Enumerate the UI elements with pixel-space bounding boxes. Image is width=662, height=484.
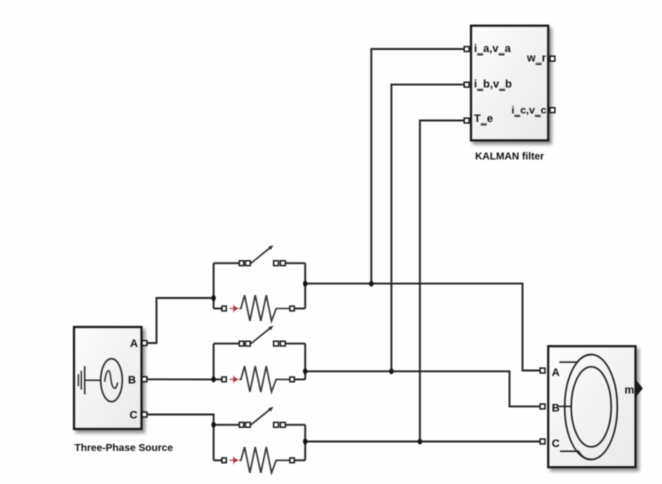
port square source C bbox=[142, 412, 147, 417]
svg-text:B: B bbox=[128, 375, 136, 387]
junction phase A tap bbox=[369, 281, 373, 287]
breaker 3 switch blade bbox=[251, 409, 270, 424]
breaker 1 right vertical wire bbox=[304, 263, 306, 308]
breaker 3 top-left wire bbox=[214, 424, 240, 426]
svg-text:C: C bbox=[552, 438, 560, 450]
breaker 2 top-right wire bbox=[285, 343, 305, 345]
breaker 2 resistor R2 zigzag bbox=[239, 366, 290, 392]
junction breaker 1 input bbox=[211, 295, 215, 301]
svg-text:m: m bbox=[625, 385, 635, 397]
breaker 1 resistor R1 zigzag bbox=[239, 295, 290, 321]
svg-text:C: C bbox=[130, 410, 138, 422]
svg-text:A: A bbox=[130, 338, 138, 350]
KALMAN filter U2 block body bbox=[471, 26, 548, 141]
wire ground to AC source symbol bbox=[85, 379, 101, 381]
svg-text:Three-Phase Source: Three-Phase Source bbox=[75, 443, 174, 454]
breaker 2 resistor port square left bbox=[222, 377, 226, 382]
breaker 2 resistor port square right bbox=[290, 377, 294, 382]
junction breaker 2 input bbox=[211, 376, 215, 382]
junction breaker 1 output bbox=[303, 281, 307, 287]
junction phase C tap bbox=[418, 439, 422, 445]
breaker 1 bottom-right wire bbox=[294, 308, 305, 310]
wire phase B breaker 2 to machine B bbox=[305, 371, 540, 406]
port square source B bbox=[142, 377, 147, 382]
machine A lead line bbox=[559, 355, 591, 363]
asynchronous machine M1 block body bbox=[548, 346, 635, 467]
machine C lead line bbox=[560, 451, 592, 459]
underscore marks for kalman pin labels bbox=[477, 55, 541, 125]
breaker 1 top-right wire bbox=[285, 262, 305, 264]
breaker 1 top-left wire bbox=[214, 262, 240, 264]
breaker 2 current arrow (red) bbox=[230, 375, 239, 383]
wire source B to breaker 2 bbox=[147, 378, 214, 380]
breaker 2 bottom-left wire bbox=[214, 378, 222, 380]
breaker 3 current arrow (red) bbox=[230, 456, 239, 464]
ground symbol (inside source) bbox=[78, 366, 84, 394]
breaker 3 left vertical wire bbox=[213, 425, 215, 461]
breaker 2 left vertical wire bbox=[213, 344, 215, 380]
breaker 1 switch blade bbox=[251, 248, 270, 263]
breaker 3 resistor port square right bbox=[290, 458, 294, 463]
port square kalman i_b,v_b bbox=[464, 82, 469, 87]
breaker 3 right vertical wire bbox=[304, 425, 306, 461]
wire phase B tap to kalman i_b,v_b bbox=[391, 85, 464, 372]
breaker 2 right vertical wire bbox=[304, 344, 306, 380]
port square machine B bbox=[540, 404, 545, 409]
breaker 3 top-right wire bbox=[285, 424, 305, 426]
junction breaker 2 output bbox=[303, 368, 307, 374]
three-phase source U1 block body bbox=[74, 327, 142, 429]
wire phase C breaker 3 to machine C bbox=[305, 441, 540, 443]
port square kalman w_r bbox=[550, 56, 555, 61]
svg-text:i_c,v_c: i_c,v_c bbox=[511, 105, 546, 117]
breaker 2 switch port squares left bbox=[239, 341, 243, 346]
breaker 1 switch port squares left bbox=[239, 261, 243, 266]
port square machine C bbox=[540, 439, 545, 444]
machine inner ellipse bbox=[571, 367, 611, 447]
wire phase A breaker 1 to machine A bbox=[305, 284, 540, 371]
machine B lead line bbox=[559, 405, 572, 407]
port square kalman T_e bbox=[464, 118, 469, 123]
breaker 2 switch blade bbox=[251, 328, 270, 343]
svg-text:i_a,v_a: i_a,v_a bbox=[474, 43, 512, 55]
wire phase C tap to kalman T_e bbox=[420, 121, 464, 442]
junction breaker 3 output bbox=[303, 439, 307, 445]
breaker 2 bottom-right wire bbox=[294, 378, 305, 380]
port square machine A bbox=[540, 368, 545, 373]
breaker 1 left vertical wire bbox=[213, 263, 215, 308]
svg-text:w_r: w_r bbox=[526, 53, 547, 65]
breaker 3 resistor R3 zigzag bbox=[239, 447, 290, 473]
breaker 2 top-left wire bbox=[214, 343, 240, 345]
breaker 3 switch port squares left bbox=[239, 422, 243, 427]
wire phase A tap to kalman i_a,v_a bbox=[371, 49, 464, 284]
breaker 1 resistor port square left bbox=[222, 306, 226, 311]
wire source A to breaker 1 bbox=[147, 298, 214, 343]
breaker 2 switch port squares right bbox=[274, 341, 279, 346]
port square source A bbox=[142, 341, 147, 346]
breaker 3 resistor port square left bbox=[222, 458, 226, 463]
breaker 3 bottom-left wire bbox=[214, 459, 222, 461]
machine output chevron m bbox=[636, 380, 643, 396]
breaker 1 bottom-left wire bbox=[214, 308, 222, 310]
port square kalman i_a,v_a bbox=[464, 47, 469, 52]
junction phase B tap bbox=[389, 368, 393, 374]
breaker 3 switch port squares right bbox=[274, 422, 279, 427]
AC source symbol V1 (circle with sine) bbox=[101, 359, 123, 402]
breaker 1 current arrow (red) bbox=[230, 305, 239, 313]
junction breaker 3 input bbox=[211, 422, 215, 428]
wire source C to breaker 3 bbox=[147, 415, 214, 425]
breaker 1 switch port squares right bbox=[274, 261, 279, 266]
svg-text:B: B bbox=[552, 403, 560, 415]
svg-text:T_e: T_e bbox=[474, 113, 493, 125]
svg-text:A: A bbox=[552, 367, 560, 379]
breaker 3 bottom-right wire bbox=[294, 459, 305, 461]
svg-text:i_b,v_b: i_b,v_b bbox=[474, 79, 512, 91]
port square kalman i_c,v_c bbox=[550, 108, 555, 113]
machine outer ellipse bbox=[565, 354, 618, 459]
breaker 1 resistor port square right bbox=[290, 306, 294, 311]
svg-text:KALMAN filter: KALMAN filter bbox=[475, 151, 544, 162]
